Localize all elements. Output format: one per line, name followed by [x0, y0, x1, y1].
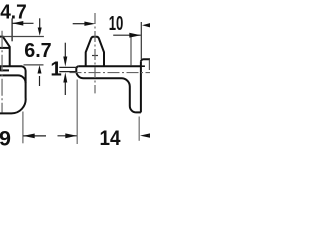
svg-text:6.7: 6.7 — [24, 39, 52, 62]
cropped extra dimension arrow at top right pointing left — [142, 23, 151, 28]
dimension 14: left outside arrow pointing right with tail — [58, 135, 77, 137]
dimension 6.7: bottom outside arrow pointing up — [39, 76, 41, 86]
thin vertical leader from dim line 10 down to plate top — [130, 36, 132, 66]
pin cone base short line (right view) — [92, 55, 98, 57]
dimension 9: extension line — [22, 112, 24, 144]
plate top + corner + bracket right edge + bottom arc + bottom edge (left view) — [0, 66, 26, 113]
dimension 10: right extension line — [140, 22, 142, 59]
pin pentagon (right view) — [86, 37, 104, 66]
dimension 9: outside arrow pointing left with tail — [23, 135, 46, 137]
plate top continuation into wall (right view) — [141, 65, 145, 67]
right view: shelf support side view outline — [76, 37, 151, 113]
dimension 14: right extension line — [138, 117, 140, 141]
dimension 10: dimension line with right arrow — [113, 34, 141, 36]
dimension 1: top extension line — [59, 66, 78, 68]
plate front-left cut edge at image border (left view) — [0, 66, 1, 70]
plate top edge (right view) — [79, 65, 141, 67]
dimension 4.7: arrowhead pointing left — [12, 21, 23, 26]
svg-text:10: 10 — [109, 12, 124, 35]
plate top level extension line (left view) — [24, 64, 44, 66]
wall top corner + top edge (right view) — [141, 59, 151, 62]
centerline of pin (left view), dash-dot — [1, 31, 3, 113]
svg-text:14: 14 — [100, 126, 121, 150]
svg-text:4.7: 4.7 — [0, 0, 27, 23]
pin tip flat + chamfer + right side (left view) — [0, 37, 10, 67]
dimension 4.7: dimension line — [12, 22, 33, 24]
svg-text:9: 9 — [0, 127, 11, 150]
dimension 1: bottom outside arrow pointing up — [64, 82, 66, 95]
dimension 14: left extension line — [76, 80, 78, 145]
pin cone base line (left view) — [0, 47, 10, 49]
bracket inner step line + inner corner arc (left view) — [0, 75, 26, 83]
dimension 1: bottom extension line — [59, 71, 76, 73]
centerline of pin (right view), dash-dot — [94, 13, 96, 93]
dimension 14: right outside arrow pointing left — [140, 133, 151, 138]
svg-text:1: 1 — [50, 57, 61, 80]
plate bottom edge + inner corner arc + hook inner edge + hook bottom arc + hook bottom edge (right view) — [84, 78, 141, 112]
wall right face sliver at image edge — [148, 60, 150, 71]
wall left face (right view) — [140, 62, 142, 113]
horizontal centerline of plate (right view), dash-dot — [70, 72, 152, 74]
dimension 6.7: top outside arrow pointing down — [39, 18, 41, 28]
dimension 1: top outside arrow pointing down — [64, 43, 66, 57]
dimension 4.7: right segment with arrow pointing right at pin centerline — [73, 23, 85, 25]
pin tip level extension line (left view) — [2, 36, 44, 38]
plate front cap: top arc, front face, bottom arc (right view) — [76, 66, 83, 78]
dimension 4.7: extension tick — [11, 18, 13, 41]
plate bottom edge, visible left of pin (left view) — [0, 69, 9, 71]
left view: shelf support front view outline — [0, 37, 26, 114]
